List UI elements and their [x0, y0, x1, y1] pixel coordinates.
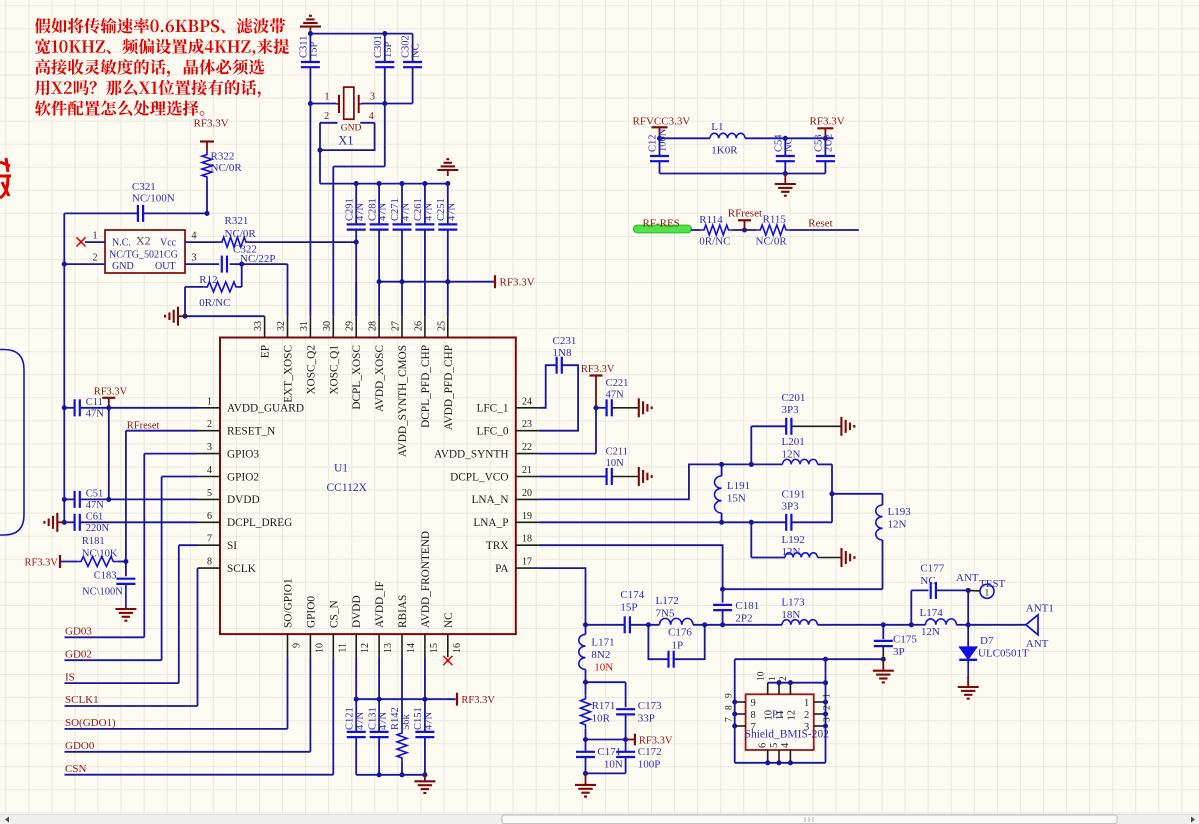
X1 pin 1 wire [310, 103, 336, 105]
wire C231 to LFC_0 [539, 365, 578, 431]
svg-text:C291: C291 [344, 198, 355, 221]
svg-text:L172: L172 [656, 595, 679, 607]
junction LNA_N node / L191 top [719, 462, 724, 467]
wire TRX row to L193 [723, 588, 883, 590]
svg-text:1: 1 [207, 396, 212, 407]
resistor R321 [218, 237, 250, 247]
U1 left pin 4 stub [198, 476, 221, 478]
wire RF3.3V node down to AVDD_SYNTH [595, 408, 597, 454]
svg-text:7: 7 [751, 722, 756, 733]
svg-text:8: 8 [207, 557, 212, 568]
junction LNA_P / L192 branch [749, 520, 754, 525]
wire RF-RES to R114 [691, 229, 700, 231]
svg-text:47N: 47N [86, 500, 105, 511]
svg-text:9: 9 [724, 693, 734, 698]
wire SO(GDO1) row [65, 728, 288, 730]
svg-text:30: 30 [322, 321, 333, 331]
svg-text:DVDD: DVDD [351, 595, 363, 628]
junction C11/RF3.3V [106, 405, 111, 410]
svg-text:3: 3 [804, 722, 809, 733]
svg-text:16: 16 [452, 643, 463, 653]
junction cap rail / C261 [422, 181, 427, 186]
svg-text:C181: C181 [735, 600, 759, 612]
power port RF3.3V at C172 node [626, 739, 635, 741]
svg-text:14: 14 [406, 643, 417, 653]
power port RF3.3V at supply row [494, 275, 496, 288]
svg-text:8N2: 8N2 [591, 649, 610, 661]
capacitor C291 [347, 223, 366, 225]
blue rounded-rect fragment at left edge (partial symbol) [0, 350, 24, 536]
svg-text:1: 1 [985, 589, 990, 599]
power port RF3.3V right of L1 [824, 128, 826, 138]
capacitor C311 [301, 61, 320, 63]
wire PA pin to matching row [539, 568, 586, 625]
U1 top pin 31 stub [309, 316, 311, 337]
scrollbar thumb [502, 815, 1117, 824]
svg-text:L173: L173 [781, 597, 805, 609]
svg-text:C176: C176 [668, 627, 692, 639]
U1 bottom pin 15 stub [424, 634, 426, 657]
power port RFVCC3.3V [659, 127, 661, 138]
svg-text:C191: C191 [782, 489, 806, 501]
junction top rail / C301 [382, 31, 387, 36]
inductor L192 [785, 553, 818, 558]
wire GD02 row [65, 659, 162, 661]
svg-text:C211: C211 [606, 447, 628, 458]
svg-text:4: 4 [780, 742, 791, 748]
svg-text:8: 8 [751, 710, 756, 721]
wire X1 loop down to cap rail [319, 150, 321, 184]
svg-text:R115: R115 [763, 214, 787, 226]
svg-text:C172: C172 [638, 746, 662, 758]
wire SCLK1 row [65, 705, 198, 707]
wire C311 column [309, 34, 311, 62]
svg-text:12N: 12N [921, 626, 940, 638]
wire branch row to L193 [832, 493, 883, 495]
svg-text:1: 1 [768, 676, 778, 681]
svg-text:SO(GDO1): SO(GDO1) [65, 717, 116, 729]
svg-text:RFreset: RFreset [728, 208, 762, 220]
svg-text:47N: 47N [355, 203, 366, 222]
svg-text:29: 29 [345, 321, 356, 331]
svg-text:DCPL_PFD_CHP: DCPL_PFD_CHP [420, 345, 432, 428]
svg-text:13: 13 [383, 643, 394, 653]
wire RF3.3V rail under U1 [356, 698, 456, 700]
svg-text:AVDD_GUARD: AVDD_GUARD [227, 403, 304, 415]
svg-text:GPIO0: GPIO0 [305, 596, 317, 628]
svg-text:11: 11 [337, 643, 348, 653]
svg-text:21: 21 [522, 465, 532, 476]
wire R142 column [401, 657, 403, 729]
wire shield top pin tie [768, 682, 826, 684]
svg-text:C121: C121 [344, 707, 355, 730]
U1 bottom pin 10 stub [309, 634, 311, 657]
svg-text:11: 11 [775, 710, 786, 720]
svg-text:D7: D7 [980, 635, 994, 647]
U1 top pin 33 stub [264, 316, 266, 337]
wire RESET_N to RFreset column [126, 430, 198, 432]
svg-text:AVDD_XOSC: AVDD_XOSC [374, 345, 386, 412]
junction top wire / C311 / ground [308, 31, 313, 36]
svg-text:17: 17 [522, 557, 532, 568]
inductor L191 (vertical) [721, 464, 723, 476]
crystal X1 right plate [358, 95, 360, 113]
svg-text:CC112X: CC112X [327, 482, 368, 494]
junction LNA_N node / C201 branch [749, 462, 754, 467]
svg-text:IS: IS [65, 671, 75, 683]
svg-text:7N5: 7N5 [656, 608, 675, 620]
wire C175 to shield rail [882, 646, 884, 659]
svg-text:5: 5 [207, 488, 212, 499]
wire L1 to RF3.3V node [745, 137, 834, 139]
svg-text:NC: NC [920, 575, 935, 587]
wire LNA_P row [539, 521, 787, 523]
wire C271 column lower [401, 230, 403, 282]
svg-text:47N: 47N [355, 712, 366, 731]
junction rail/C131 [377, 697, 382, 702]
svg-text:TRX: TRX [486, 540, 509, 552]
svg-text:C261: C261 [413, 198, 424, 221]
junction cap rail / C281 [377, 181, 382, 186]
ground below C151 [424, 775, 426, 782]
junction C173/C172 node [623, 737, 628, 742]
svg-text:RF3.3V: RF3.3V [581, 364, 615, 375]
svg-text:C61: C61 [86, 512, 104, 523]
wire SCLK1 vertical to pin [197, 568, 199, 706]
capacitor C61 [73, 514, 75, 531]
wire GD03 row [65, 636, 145, 638]
svg-text:3: 3 [192, 253, 197, 264]
resistor R12 [240, 286, 242, 288]
svg-text:C131: C131 [367, 707, 378, 730]
U1 top pin 30 stub [332, 316, 334, 337]
inductor L173 [782, 620, 817, 625]
wire C12 column [659, 138, 661, 156]
junction RFVCC node [657, 136, 662, 141]
svg-text:R12: R12 [199, 274, 217, 286]
svg-text:RF-RES: RF-RES [643, 218, 680, 230]
svg-text:47N: 47N [424, 712, 435, 731]
wire C174 to L172 [630, 624, 660, 626]
svg-text:NC\100N: NC\100N [82, 587, 123, 598]
svg-text:Shield_BMIS-202: Shield_BMIS-202 [745, 729, 830, 741]
wire C271 column upper [401, 184, 403, 225]
power port RF3.3V under U1 [456, 693, 458, 706]
svg-text:27: 27 [391, 321, 402, 331]
U1 left pin 3 stub [198, 453, 221, 455]
svg-text:NC/TG_5021CG: NC/TG_5021CG [109, 250, 178, 261]
junction C177 branch [909, 622, 914, 627]
junction ANT node upper [966, 588, 971, 593]
wire C171/C172 ground row [586, 772, 626, 774]
wire C176 bypass loop [648, 625, 668, 659]
svg-text:GD02: GD02 [65, 648, 92, 660]
svg-text:XOSC_Q1: XOSC_Q1 [328, 345, 340, 395]
wire RF3.3V node down to C51 row [108, 408, 110, 500]
component X2 box NC/TG_5021CG [105, 230, 185, 273]
svg-text:12: 12 [787, 710, 798, 721]
svg-text:47N: 47N [378, 203, 389, 222]
svg-text:47N: 47N [378, 712, 389, 731]
X2 pin 1 (N.C.) [85, 241, 105, 243]
inductor L171 (vertical) [585, 625, 587, 635]
svg-text:C201: C201 [782, 392, 806, 404]
svg-text:10: 10 [757, 671, 767, 681]
wire GD03 vertical to pin [143, 454, 145, 638]
capacitor C121 [347, 731, 366, 733]
U1 bottom pin 16 stub [447, 634, 449, 657]
wire IS row [65, 682, 179, 684]
wire C51 row (DVDD) [64, 498, 74, 500]
capacitor C271 [393, 223, 412, 225]
wire node row [586, 739, 626, 741]
svg-text:31: 31 [299, 321, 310, 331]
junction R322/C321/X2 pin4 [204, 211, 209, 216]
junction C175 top [881, 622, 886, 627]
svg-text:12N: 12N [782, 546, 801, 558]
capacitor C171 [576, 751, 595, 753]
junction ground rail [783, 171, 788, 176]
wire L173 to C175 node [817, 624, 911, 626]
junction crystal pin3 node [382, 101, 387, 106]
power port RF3.3V above R322 [206, 142, 208, 151]
wire L201 row [751, 463, 782, 465]
wire supply columns down to pins 28-25 [378, 282, 380, 317]
svg-text:RF3.3V: RF3.3V [639, 735, 673, 746]
svg-text:12N: 12N [888, 519, 907, 531]
svg-text:3P: 3P [893, 646, 905, 658]
U1 right pin 24 stub [516, 407, 539, 409]
wire C177 to ANT node [936, 589, 968, 591]
resistor R114 [700, 225, 733, 235]
wire C321 row [64, 212, 138, 214]
svg-text:ANT: ANT [1026, 638, 1049, 650]
wire C302 column down to pin3 node [412, 34, 414, 62]
wire C291 column lower [355, 230, 357, 317]
U1 right pin 23 stub [516, 430, 539, 432]
svg-text:X2: X2 [136, 234, 151, 248]
svg-text:CSN: CSN [65, 763, 86, 775]
X2 pin 3 wire [185, 263, 219, 265]
svg-text:C281: C281 [367, 198, 378, 221]
wire ground rail under caps [356, 774, 425, 776]
wire C301 lower to jog to pin30 column [384, 67, 386, 166]
capacitor C191 [785, 514, 787, 531]
U1 right pin 20 stub [516, 498, 539, 500]
svg-text:1: 1 [823, 693, 833, 698]
svg-text:2P2: 2P2 [735, 613, 752, 625]
ground above cap rail (pointing up) [447, 170, 449, 176]
capacitor C131 [370, 731, 389, 733]
svg-text:26: 26 [413, 321, 424, 331]
wire LFC_1 to C231 loop [539, 365, 557, 408]
svg-text:RBIAS: RBIAS [397, 595, 409, 628]
capacitor C174 [624, 616, 626, 633]
shield bottom pins 6,5,4 [767, 750, 769, 763]
U1 top pin 28 stub [378, 316, 380, 337]
ground at top of C311 (pointing up) [309, 27, 311, 34]
svg-text:LFC_1: LFC_1 [476, 403, 508, 415]
svg-text:2: 2 [207, 419, 212, 430]
ground below D7 [967, 676, 969, 687]
svg-text:X1: X1 [338, 134, 353, 148]
wire C201 row [751, 425, 786, 427]
svg-text:C151: C151 [413, 707, 424, 730]
horizontal scrollbar track [0, 815, 1199, 824]
svg-text:1P: 1P [672, 640, 684, 652]
svg-text:L192: L192 [782, 534, 805, 546]
wire L171 node to C173 [586, 681, 626, 683]
U1 right pin 21 stub [516, 476, 539, 478]
junction cap rail / C251 [445, 181, 450, 186]
svg-text:SI: SI [227, 540, 237, 552]
svg-text:10R: 10R [592, 713, 611, 725]
junction cap rail / C271 [399, 181, 404, 186]
junction supply row [377, 279, 382, 284]
X2 pin 2 wire to rail [64, 263, 105, 265]
junction C176 branch right [702, 622, 707, 627]
svg-text:DVDD: DVDD [227, 494, 260, 506]
svg-text:15N: 15N [727, 493, 746, 505]
svg-text:6: 6 [207, 511, 212, 522]
ground right of L192 [818, 557, 842, 559]
wire top rail C311-C301-C302 [310, 33, 412, 35]
svg-text:R142: R142 [390, 707, 401, 730]
svg-text:TEST: TEST [979, 578, 1006, 590]
ground right of C221 [612, 407, 639, 409]
wire C176 loop right [674, 625, 705, 659]
svg-text:SCLK1: SCLK1 [65, 694, 99, 706]
wire C281 column lower [378, 230, 380, 282]
junction rail/C11 [62, 405, 67, 410]
svg-text:RF3.3V: RF3.3V [94, 387, 128, 398]
U1 left pin 6 stub [198, 521, 221, 523]
U1 left pin 7 stub [198, 544, 221, 546]
wire C301 column upper [384, 34, 386, 62]
wire C175 column [882, 625, 884, 639]
junction cap rail / C291 [354, 181, 359, 186]
svg-text:47N: 47N [446, 203, 457, 222]
wire filter ground rail [660, 173, 826, 175]
junction gnd rail C131 [377, 772, 382, 777]
svg-text:ANT1: ANT1 [1026, 603, 1054, 615]
svg-text:XOSC_Q2: XOSC_Q2 [305, 345, 317, 395]
junction X2 pin2 / rail [62, 262, 67, 267]
crystal X1 body [344, 87, 354, 119]
svg-text:NC/0R: NC/0R [756, 236, 788, 248]
wire R321 to DCPL_XOSC column [250, 241, 356, 243]
svg-text:18N: 18N [781, 609, 800, 621]
svg-text:25: 25 [436, 321, 447, 331]
shield top pins 10,11,12 [767, 683, 769, 695]
svg-text:OUT: OUT [155, 261, 176, 272]
junction rail/C121 [354, 697, 359, 702]
junction supply row [445, 279, 450, 284]
junction TRX node [720, 587, 725, 592]
crystal X1 left plate [338, 95, 340, 113]
wire L192 branch down [750, 522, 752, 557]
wire C183 to ground [125, 584, 127, 608]
wire cap rail y=183.6 [320, 183, 448, 185]
svg-text:24: 24 [522, 396, 532, 407]
junction rail/C61 end [62, 520, 67, 525]
X1 pin 2 wire [320, 122, 338, 124]
svg-text:C321: C321 [132, 181, 156, 193]
U1 bottom pin 14 stub [401, 634, 403, 657]
svg-text:C174: C174 [620, 589, 644, 601]
svg-text:AVDD_IF: AVDD_IF [374, 581, 386, 628]
svg-text:GD03: GD03 [65, 626, 92, 638]
junction top pin 12 [788, 680, 793, 685]
svg-text:1: 1 [804, 698, 809, 709]
wire C261 column upper [424, 184, 426, 225]
resistor R171 (vertical) [585, 682, 587, 695]
svg-text:AVDD_SYNTH_CMOS: AVDD_SYNTH_CMOS [397, 345, 409, 457]
X1 pin 3 wire [361, 103, 385, 105]
U1 right pin 17 stub [516, 567, 539, 569]
ground right of C201 [791, 425, 841, 427]
svg-text:18: 18 [522, 534, 532, 545]
wire TRX node down to C181 [722, 589, 724, 602]
capacitor C201 [785, 418, 787, 435]
capacitor C251 [438, 223, 457, 225]
svg-text:2: 2 [804, 710, 809, 721]
svg-text:RF3.3V: RF3.3V [500, 277, 535, 289]
wire L172 to C181 node [693, 624, 723, 626]
wire shield bottom rail [735, 762, 826, 764]
capacitor C231 [555, 357, 557, 374]
U1 left pin 1 stub [198, 407, 221, 409]
svg-text:8: 8 [724, 705, 734, 710]
wire R181 to C183 [117, 561, 126, 563]
svg-text:GND: GND [112, 261, 134, 272]
svg-text:12: 12 [360, 643, 371, 653]
svg-text:R114: R114 [699, 214, 723, 226]
wire L193 down to TRX row [882, 540, 884, 589]
U1 top pin 32 stub [287, 316, 289, 337]
junction crystal pin1 node [308, 101, 313, 106]
capacitor C173 [616, 708, 635, 710]
junction top tie / right vertical [823, 680, 828, 685]
svg-text:SCLK: SCLK [227, 563, 257, 575]
svg-text:15P: 15P [620, 602, 637, 614]
capacitor C211 [605, 468, 607, 485]
svg-text:33P: 33P [638, 713, 655, 725]
wire C171 column [585, 740, 587, 752]
power port RFreset (bar above) [744, 220, 746, 230]
svg-text:C177: C177 [920, 563, 944, 575]
junction supply row [399, 279, 404, 284]
shield right pins 1,2,3 [814, 701, 826, 703]
wire DCPL_VCO row to C211 [539, 476, 607, 478]
wire SCLK1 pin row horizontal [197, 567, 199, 569]
svg-text:19: 19 [522, 511, 532, 522]
svg-text:47N: 47N [401, 203, 412, 222]
junction gnd rail R142 [399, 772, 404, 777]
svg-text:10: 10 [764, 710, 775, 721]
U1 top pin 26 stub [424, 316, 426, 337]
wire C201 branch up [750, 426, 752, 464]
resistor R142 [397, 729, 407, 762]
wire C11 row (AVDD_GUARD) [64, 407, 74, 409]
svg-text:LNA_P: LNA_P [473, 517, 508, 529]
resistor R181 [60, 561, 77, 563]
U1 top pin 29 stub [355, 316, 357, 337]
U1 top pin 25 stub [447, 316, 449, 337]
svg-text:15: 15 [429, 643, 440, 653]
wire pin32 column down [287, 264, 289, 316]
svg-text:NC/0R: NC/0R [211, 162, 243, 174]
